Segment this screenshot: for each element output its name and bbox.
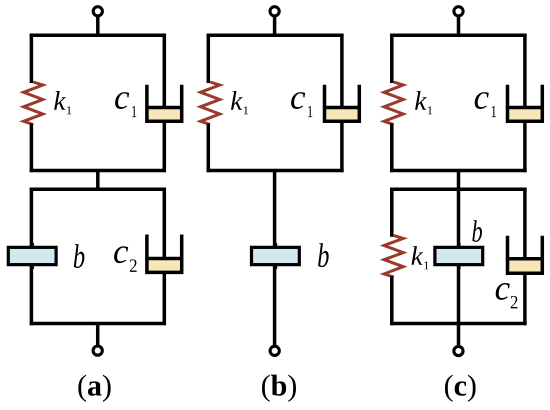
damper c1 (c) [506,34,544,173]
damper c2 (a) [145,188,183,326]
wire left upper (b) [207,34,211,83]
label k1 bottom (c) [411,246,428,269]
wire left upper (a) [30,34,34,83]
wire top stub (a) [96,15,100,35]
wire bottom rail loop2 (c) [390,322,526,326]
label b (b) [318,243,329,267]
label b (c) [472,220,482,242]
inerter b (c) [435,243,483,269]
wire top rail (a) [30,34,166,38]
label c1 (a) [115,92,136,117]
wire middle lower (b) [273,265,277,346]
wire left lower (c) [390,124,394,173]
spring k1 (a) [24,82,43,125]
label k1 top (c) [415,91,432,114]
label b (a) [74,244,85,268]
wire top stub (b) [273,15,277,35]
wire bottom rail (b) [207,169,344,173]
label k1 (a) [54,91,71,114]
label (b) [262,375,296,402]
terminal top (b) [270,7,279,16]
wire left lower loop2 (c) [390,276,394,325]
label (c) [445,375,476,402]
wire top rail loop2 (a) [30,187,166,191]
wire middle stub (c) [457,171,461,190]
label c2 (c) [496,283,518,308]
wire left lower loop2 (a) [30,265,34,325]
wire top stub (c) [457,15,461,35]
wire bottom rail loop2 (a) [30,322,166,326]
label c2 (a) [114,246,137,272]
damper c1 (a) [145,34,183,173]
terminal bottom (c) [454,346,463,355]
wire top rail (c) [390,34,526,38]
wire top rail loop2 (c) [390,187,526,191]
wire bottom rail loop1 (c) [390,169,526,173]
label c1 (b) [291,92,312,117]
wire left lower (a) [30,124,34,173]
spring k1 (b) [201,82,220,125]
wire left lower (b) [207,124,211,173]
wire left upper loop2 (a) [30,188,34,248]
wire middle stub (a) [96,171,100,190]
wire left upper (c) [390,34,394,83]
spring k1 top (c) [384,82,403,125]
wire middle lower loop2 (c) [457,265,461,324]
spring k1 bottom (c) [384,236,403,278]
wire middle upper (b) [273,171,277,248]
wire left upper loop2 (c) [390,188,394,237]
wire middle upper loop2 (c) [457,189,461,247]
inerter b (b) [252,243,300,269]
terminal bottom (a) [93,346,102,355]
terminal top (a) [93,7,102,16]
label c1 (c) [475,92,496,117]
wire bottom stub (a) [96,324,100,347]
damper c2 (c) [506,188,544,326]
wire bottom stub (c) [457,324,461,347]
label (a) [78,375,110,402]
wire bottom rail loop1 (a) [30,169,166,173]
inerter b (a) [8,243,56,269]
terminal top (c) [454,7,463,16]
terminal bottom (b) [270,346,279,355]
wire top rail (b) [207,34,344,38]
label k1 (b) [231,91,248,114]
damper c1 (b) [323,34,361,173]
